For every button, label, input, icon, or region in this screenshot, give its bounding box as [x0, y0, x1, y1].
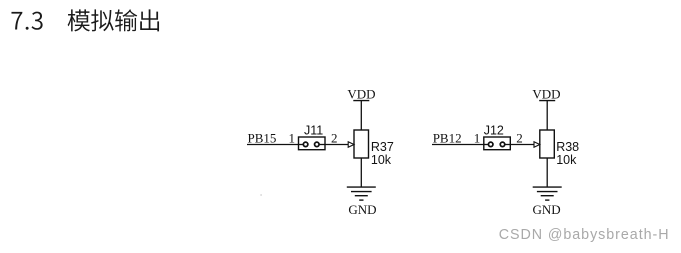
potentiometer R38 wiper arrow	[534, 142, 540, 147]
wire stub J12 pin2	[503, 144, 511, 146]
artifact dot	[260, 194, 262, 196]
ground symbol right bar1	[533, 186, 562, 188]
svg-text:GND: GND	[348, 202, 376, 217]
svg-text:PB12: PB12	[433, 131, 462, 146]
jumper J12 body	[484, 137, 511, 150]
watermark CSDN @babysbreath-H	[499, 227, 671, 244]
svg-text:1: 1	[474, 131, 481, 146]
svg-text:2: 2	[516, 131, 523, 146]
svg-text:R38: R38	[556, 140, 579, 154]
jumper J11 pad circle pin 2	[315, 142, 320, 147]
svg-text:CSDN @babysbreath-H: CSDN @babysbreath-H	[499, 227, 670, 243]
power VDD stem right	[546, 101, 548, 131]
svg-text:10k: 10k	[371, 153, 392, 167]
wire J11 pin 2 to R37 wiper	[317, 144, 349, 146]
svg-text:GND: GND	[533, 202, 561, 217]
power VDD bar left	[353, 100, 369, 102]
svg-text:10k: 10k	[556, 153, 577, 167]
wire J12 pin 2 to R38 wiper	[503, 144, 535, 146]
svg-text:R37: R37	[371, 140, 394, 154]
wire stub J11 pin1	[299, 144, 306, 146]
potentiometer R37 body	[354, 130, 369, 158]
ground symbol left bar4	[359, 199, 363, 201]
jumper J12 pad circle pin 1	[488, 142, 493, 147]
ground symbol right bar2	[537, 191, 558, 193]
wire PB12 to J12 pin 1	[432, 144, 491, 146]
power VDD stem left	[360, 101, 362, 131]
svg-text:PB15: PB15	[248, 131, 277, 146]
svg-text:J11: J11	[304, 123, 323, 137]
section title 7.3 模拟输出	[11, 9, 159, 31]
wire R38 bottom to ground	[546, 158, 548, 188]
jumper J11 body	[299, 137, 326, 150]
potentiometer R37 wiper arrow	[348, 142, 354, 147]
svg-text:2: 2	[331, 131, 338, 146]
ground symbol left bar2	[351, 191, 372, 193]
ground symbol left bar1	[347, 186, 376, 188]
wire R37 bottom to ground	[360, 158, 362, 188]
jumper J12 pad circle pin 2	[500, 142, 505, 147]
svg-text:VDD: VDD	[347, 86, 375, 101]
ground symbol left bar3	[355, 195, 368, 197]
potentiometer R38 body	[540, 130, 555, 158]
svg-text:1: 1	[289, 131, 296, 146]
wire stub J11 pin2	[317, 144, 325, 146]
jumper J11 pad circle pin 1	[303, 142, 308, 147]
svg-text:VDD: VDD	[532, 86, 560, 101]
wire PB15 to J11 pin 1	[247, 144, 306, 146]
wire stub J12 pin1	[484, 144, 491, 146]
ground symbol right bar3	[541, 195, 554, 197]
ground symbol right bar4	[545, 199, 549, 201]
power VDD bar right	[539, 100, 555, 102]
svg-text:J12: J12	[484, 123, 504, 137]
